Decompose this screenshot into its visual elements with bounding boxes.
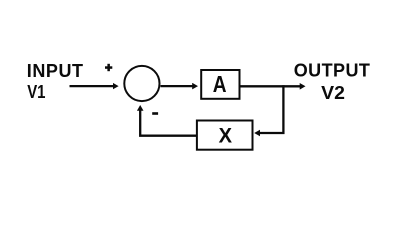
plus sign at summing junction: [105, 64, 112, 71]
svg-text:X: X: [219, 124, 233, 148]
svg-text:V1: V1: [27, 82, 45, 102]
wire summing junction to block A: [161, 85, 193, 87]
wire feedback vertical drop from output junction: [260, 85, 284, 133]
svg-text:INPUT: INPUT: [27, 61, 84, 81]
wire input arrow into summing junction: [70, 85, 114, 87]
wire block X back up into summing junction: [140, 110, 196, 135]
svg-text:A: A: [213, 71, 227, 97]
wire block A to output with arrow: [241, 85, 301, 87]
summing junction: [124, 66, 159, 101]
block X box: [197, 121, 253, 150]
svg-text:V2: V2: [321, 83, 345, 103]
svg-text:OUTPUT: OUTPUT: [294, 60, 371, 80]
minus sign at summing junction: [152, 112, 158, 115]
block A box: [201, 70, 239, 99]
